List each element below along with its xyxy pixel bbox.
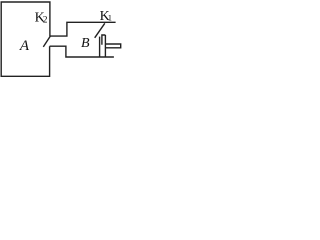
pump piston knob (left vertical and top) (102, 35, 106, 45)
svg-text:1: 1 (108, 12, 112, 22)
tube lower wall, vessel B left edge and bottom edge (50, 46, 114, 57)
svg-text:2: 2 (43, 16, 48, 26)
valve K2 blade (43, 36, 50, 47)
pump outlet tube (two prongs with end cap) (105, 44, 120, 48)
pump body vertical (104, 35, 106, 57)
container A (vessel outline, open on right side) (1, 2, 50, 76)
tube upper wall, riser and top wire to K1 (50, 22, 116, 36)
valve K1 blade (95, 23, 105, 38)
vessel B right edge (99, 37, 101, 57)
svg-text:A: A (19, 38, 30, 54)
svg-text:B: B (81, 36, 90, 51)
